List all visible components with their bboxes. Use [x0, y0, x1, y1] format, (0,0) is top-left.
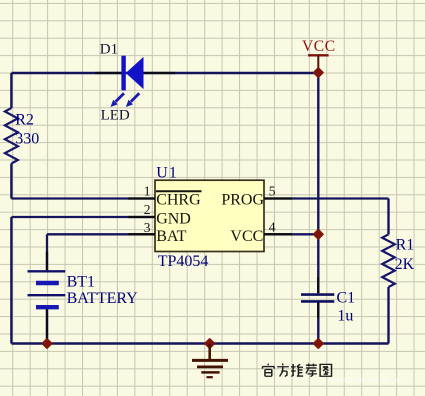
- wire: pin2 GND horizontal: [11, 216, 155, 218]
- wire: C1 bottom to rail: [317, 303, 319, 344]
- text note: 官方推荐图 (drawn strokes): [262, 364, 331, 377]
- pin stub 5 black: [264, 197, 292, 199]
- pin stub 1 black: [128, 197, 155, 199]
- pin name PROG: [221, 192, 264, 209]
- LED arrow 2: [126, 93, 140, 107]
- svg-text:330: 330: [15, 131, 39, 148]
- svg-text:BATTERY: BATTERY: [67, 290, 139, 307]
- wire: left vertical R2 branch (top corner to pin1): [10, 73, 12, 199]
- svg-text:U1: U1: [156, 165, 178, 182]
- svg-text:VCC: VCC: [230, 228, 263, 245]
- label U1 designator: [156, 165, 178, 182]
- char 官: [262, 364, 274, 377]
- label D1 designator: [100, 42, 118, 58]
- svg-text:TP4054: TP4054: [158, 253, 209, 270]
- label BT1 designator: [67, 273, 95, 290]
- label R1 designator: [396, 237, 415, 254]
- junction node at battery bottom: [42, 339, 51, 348]
- char 推: [291, 364, 303, 376]
- faint watermark bottom right: [331, 377, 402, 383]
- wire: pin5 PROG horizontal to R1: [264, 197, 389, 199]
- char 图: [320, 364, 331, 376]
- pin name CHRG with overline: [156, 191, 202, 208]
- wire: R1 bottom vertical: [387, 287, 389, 344]
- svg-text:4: 4: [269, 220, 276, 235]
- op-amp U1 body (TP4054 IC): [155, 180, 264, 251]
- wire: pin4 VCC horizontal: [264, 233, 318, 235]
- svg-text:VCC: VCC: [302, 38, 336, 55]
- wire: left lower vertical (GND net down to bottom rail): [10, 217, 12, 344]
- svg-text:2: 2: [144, 202, 151, 217]
- label LED comment: [101, 108, 130, 124]
- pin number 1: [144, 184, 151, 199]
- resistor R2: [5, 108, 18, 164]
- wire: bottom horizontal rail: [11, 342, 388, 344]
- capacitor C1 top plate: [301, 293, 334, 296]
- label BATTERY comment: [67, 290, 139, 307]
- pin stub 3 black: [128, 233, 155, 235]
- diode D1 left pin: [95, 72, 121, 74]
- svg-text:2K: 2K: [395, 256, 415, 273]
- pin number 5: [269, 184, 276, 199]
- diode D1 triangle: [126, 57, 144, 89]
- svg-text:LED: LED: [101, 108, 130, 124]
- ground symbol: [192, 344, 228, 378]
- wire: VCC vertical net down to C1: [317, 73, 319, 293]
- wire: R1 top vertical: [387, 199, 389, 235]
- label R1 value 2K: [395, 256, 415, 273]
- wire: pin3 BAT horizontal: [47, 233, 155, 235]
- svg-text:GND: GND: [156, 211, 191, 228]
- char 荐: [306, 364, 317, 377]
- junction node at C1 bottom rail: [314, 339, 323, 348]
- label R2 value 330: [15, 131, 39, 148]
- svg-text:C1: C1: [337, 289, 356, 306]
- pin name BAT: [156, 228, 186, 245]
- resistor R1: [382, 234, 395, 287]
- svg-text:CHRG: CHRG: [156, 192, 201, 209]
- wire: battery bottom vertical: [46, 307, 48, 343]
- pin name VCC: [230, 228, 263, 245]
- battery BT1 plate 1 (long): [28, 270, 66, 272]
- junction node at VCC: [314, 68, 323, 77]
- svg-text:1: 1: [144, 184, 151, 199]
- wire: pin1 CHRG horizontal: [11, 197, 155, 199]
- capacitor C1 pin stubs: [317, 277, 319, 318]
- svg-text:BT1: BT1: [67, 273, 95, 290]
- wire: top horizontal net from R2 to VCC: [11, 72, 318, 74]
- power VCC symbol: [302, 38, 336, 72]
- label TP4054 comment: [158, 253, 209, 270]
- svg-text:D1: D1: [100, 42, 118, 58]
- wire: battery top vertical: [46, 234, 48, 271]
- junction node at pin4 / VCC net: [314, 230, 323, 239]
- pin number 4: [269, 220, 276, 235]
- LED arrow 1: [111, 93, 125, 107]
- svg-text:1u: 1u: [337, 307, 353, 324]
- battery BT1 plate 4 (short thick): [36, 305, 59, 309]
- svg-text:BAT: BAT: [156, 228, 186, 245]
- svg-text:3: 3: [144, 220, 151, 235]
- svg-text:PROG: PROG: [221, 192, 264, 209]
- capacitor C1 bottom plate: [301, 300, 334, 303]
- pin name GND: [156, 211, 191, 228]
- label C1 value 1u: [337, 307, 353, 324]
- label C1 designator: [337, 289, 356, 306]
- label R2 designator: [15, 112, 34, 129]
- char 方: [277, 364, 289, 377]
- pin stub 2 black: [128, 216, 155, 218]
- pin stub 4 black: [264, 233, 292, 235]
- diode D1 right pin: [144, 72, 176, 74]
- battery BT1 plate 2 (short thick): [36, 281, 59, 285]
- pin number 2: [144, 202, 151, 217]
- junction node at ground: [205, 339, 214, 348]
- pin number 3: [144, 220, 151, 235]
- battery BT1 plate 3 (long): [28, 294, 66, 296]
- svg-text:5: 5: [269, 184, 276, 199]
- svg-text:R2: R2: [15, 112, 34, 129]
- svg-text:R1: R1: [396, 237, 415, 254]
- diode D1 cathode bar: [121, 56, 125, 91]
